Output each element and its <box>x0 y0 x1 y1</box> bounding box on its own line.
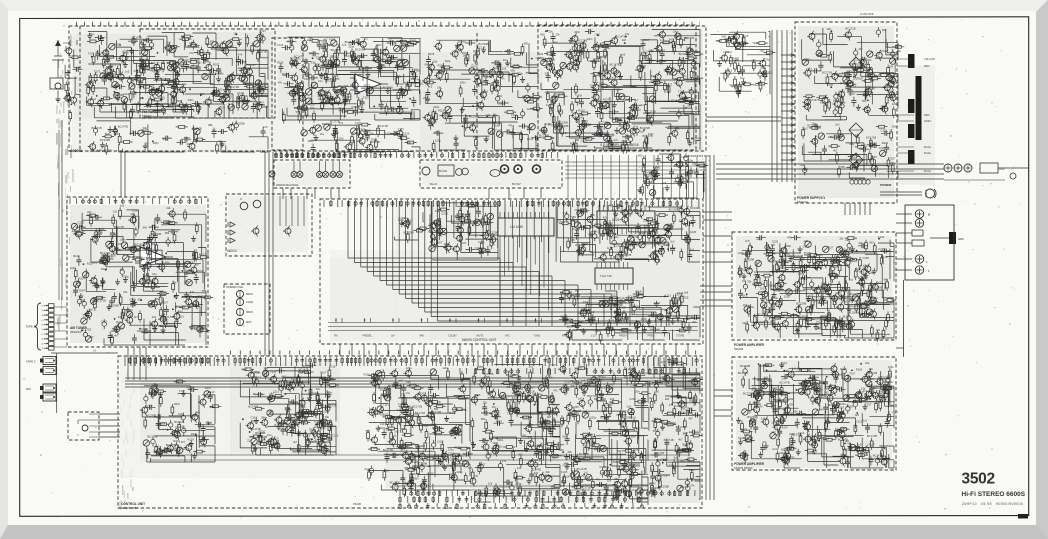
svg-text:C113: C113 <box>255 375 262 379</box>
svg-text:C113: C113 <box>725 50 732 54</box>
svg-text:R118: R118 <box>277 61 284 65</box>
svg-text:22k: 22k <box>555 33 560 37</box>
svg-text:R118: R118 <box>626 134 633 138</box>
svg-text:1n5: 1n5 <box>875 328 880 332</box>
svg-text:220p: 220p <box>590 416 596 420</box>
svg-text:560: 560 <box>356 37 361 41</box>
svg-text:R118: R118 <box>370 446 377 450</box>
svg-text:100n: 100n <box>599 82 605 86</box>
svg-text:6600/10: 6600/10 <box>797 200 808 204</box>
svg-text:220p: 220p <box>406 366 412 370</box>
svg-text:33k: 33k <box>855 269 860 273</box>
svg-text:220p: 220p <box>784 295 790 299</box>
svg-text:C113: C113 <box>178 412 185 416</box>
svg-text:BC171B: BC171B <box>846 27 856 31</box>
svg-text:68k: 68k <box>511 69 516 73</box>
svg-text:BC147B: BC147B <box>780 381 790 385</box>
svg-text:BC171B: BC171B <box>767 369 777 373</box>
svg-text:22k: 22k <box>865 361 870 365</box>
svg-text:C113: C113 <box>726 68 733 72</box>
svg-text:33k: 33k <box>567 450 572 454</box>
svg-text:33k: 33k <box>747 280 752 284</box>
svg-text:1n5: 1n5 <box>631 416 636 420</box>
svg-text:2n2: 2n2 <box>428 85 433 89</box>
svg-text:22k: 22k <box>684 36 689 40</box>
svg-text:BC171B: BC171B <box>253 392 263 396</box>
svg-text:C113: C113 <box>178 314 185 318</box>
svg-text:220p: 220p <box>253 370 259 374</box>
svg-text:T107: T107 <box>827 245 834 249</box>
svg-text:22k: 22k <box>545 470 550 474</box>
svg-text:560: 560 <box>498 94 503 98</box>
svg-text:T107: T107 <box>355 121 362 125</box>
svg-text:10u: 10u <box>209 98 214 102</box>
svg-text:R207: R207 <box>191 432 198 436</box>
svg-text:1k8: 1k8 <box>237 73 242 77</box>
svg-text:100n: 100n <box>460 81 466 85</box>
svg-text:1n5: 1n5 <box>816 319 821 323</box>
svg-text:33k: 33k <box>858 241 863 245</box>
svg-text:1n5: 1n5 <box>745 239 750 243</box>
svg-text:100n: 100n <box>617 449 623 453</box>
svg-text:1n5: 1n5 <box>125 70 130 74</box>
svg-text:C225: C225 <box>862 256 869 260</box>
svg-text:22k: 22k <box>557 219 562 223</box>
svg-text:2n2: 2n2 <box>781 376 786 380</box>
svg-text:22k: 22k <box>247 438 252 442</box>
svg-text:C113: C113 <box>848 92 855 96</box>
svg-text:BC171B: BC171B <box>399 43 409 47</box>
svg-text:1k8: 1k8 <box>855 413 860 417</box>
svg-text:22k: 22k <box>160 96 165 100</box>
svg-text:BC 547: BC 547 <box>512 182 521 186</box>
svg-text:68k: 68k <box>776 433 781 437</box>
svg-text:BC171B: BC171B <box>738 371 748 375</box>
svg-text:1n5: 1n5 <box>621 52 626 56</box>
svg-text:68k: 68k <box>505 49 510 53</box>
svg-text:T107: T107 <box>495 129 502 133</box>
svg-text:1k8: 1k8 <box>838 74 843 78</box>
svg-text:560: 560 <box>872 155 877 159</box>
svg-text:10u: 10u <box>606 46 611 50</box>
svg-text:BC171B: BC171B <box>199 253 209 257</box>
svg-text:1-10: 1-10 <box>591 335 596 338</box>
svg-text:R207: R207 <box>409 39 416 43</box>
svg-text:1n5: 1n5 <box>819 408 824 412</box>
svg-text:RED: RED <box>924 64 930 68</box>
svg-text:C225: C225 <box>178 90 185 94</box>
svg-text:6600/3A BALANCE: 6600/3A BALANCE <box>276 183 299 187</box>
svg-text:C225: C225 <box>614 244 621 248</box>
svg-text:33k: 33k <box>309 51 314 55</box>
svg-text:2n2: 2n2 <box>392 434 397 438</box>
svg-text:47k: 47k <box>690 484 695 488</box>
svg-text:Hi-Fi STEREO 6600S: Hi-Fi STEREO 6600S <box>962 491 1026 498</box>
svg-text:RED: RED <box>924 113 930 117</box>
svg-text:68k: 68k <box>208 123 213 127</box>
svg-text:C113: C113 <box>665 294 672 298</box>
svg-text:R207: R207 <box>329 37 336 41</box>
svg-text:10u: 10u <box>740 76 745 80</box>
svg-text:1n5: 1n5 <box>113 209 118 213</box>
svg-text:C225: C225 <box>572 405 579 409</box>
svg-text:560: 560 <box>178 309 183 313</box>
svg-text:C113: C113 <box>382 413 389 417</box>
svg-text:4k7: 4k7 <box>293 440 298 444</box>
svg-text:R118: R118 <box>397 39 404 43</box>
svg-text:1k8: 1k8 <box>509 398 514 402</box>
svg-text:C225: C225 <box>403 132 410 136</box>
svg-text:2n2: 2n2 <box>93 261 98 265</box>
svg-text:1n5: 1n5 <box>486 113 491 117</box>
svg-text:BC239B: BC239B <box>409 412 419 416</box>
svg-text:C225: C225 <box>78 221 85 225</box>
svg-text:100n: 100n <box>687 315 693 319</box>
svg-text:10u: 10u <box>379 387 384 391</box>
svg-text:C225: C225 <box>772 239 779 243</box>
svg-text:1n5: 1n5 <box>514 63 519 67</box>
svg-text:1n5: 1n5 <box>263 125 268 129</box>
svg-text:T107: T107 <box>655 417 662 421</box>
svg-text:TCA 730: TCA 730 <box>600 274 612 278</box>
svg-text:220p: 220p <box>515 482 521 486</box>
svg-text:R207: R207 <box>174 402 181 406</box>
svg-text:4k7: 4k7 <box>771 430 776 434</box>
svg-text:33k: 33k <box>548 29 553 33</box>
svg-text:TAPE 2: TAPE 2 <box>26 360 36 364</box>
svg-text:TAPE 1: TAPE 1 <box>26 325 36 329</box>
svg-text:33k: 33k <box>571 384 576 388</box>
svg-text:1n5: 1n5 <box>761 417 766 421</box>
svg-text:33k: 33k <box>545 71 550 75</box>
svg-text:BC147B: BC147B <box>118 124 128 128</box>
svg-text:68k: 68k <box>884 278 889 282</box>
svg-text:47k: 47k <box>205 59 210 63</box>
svg-text:560: 560 <box>552 456 557 460</box>
svg-text:22k: 22k <box>742 321 747 325</box>
svg-text:T107: T107 <box>179 389 186 393</box>
svg-text:100n: 100n <box>840 402 846 406</box>
svg-text:T107: T107 <box>363 96 370 100</box>
svg-text:38kHz: 38kHz <box>246 311 254 314</box>
svg-text:33k: 33k <box>140 96 145 100</box>
svg-text:A226: A226 <box>612 218 620 222</box>
svg-text:BLUE: BLUE <box>924 145 931 149</box>
svg-text:560: 560 <box>540 32 545 36</box>
svg-text:1n5: 1n5 <box>613 138 618 142</box>
svg-text:100n: 100n <box>191 127 197 131</box>
svg-text:33k: 33k <box>865 299 870 303</box>
svg-text:T107: T107 <box>507 412 514 416</box>
svg-text:2n2: 2n2 <box>690 248 695 252</box>
svg-text:BC147B: BC147B <box>531 468 541 472</box>
svg-text:TUNE: TUNE <box>534 335 541 338</box>
svg-text:2n2: 2n2 <box>561 454 566 458</box>
svg-text:T107: T107 <box>479 463 486 467</box>
svg-text:560: 560 <box>649 49 654 53</box>
svg-text:C225: C225 <box>690 230 697 234</box>
svg-text:BC239B: BC239B <box>622 415 632 419</box>
svg-text:4k7: 4k7 <box>417 417 422 421</box>
svg-text:47k: 47k <box>688 88 693 92</box>
svg-text:33k: 33k <box>583 300 588 304</box>
svg-text:T107: T107 <box>869 442 876 446</box>
svg-text:100n: 100n <box>98 227 104 231</box>
svg-text:BC171B: BC171B <box>378 124 388 128</box>
svg-text:220p: 220p <box>325 43 331 47</box>
svg-text:68k: 68k <box>744 433 749 437</box>
svg-text:560: 560 <box>813 378 818 382</box>
svg-text:100n: 100n <box>648 132 654 136</box>
svg-text:AFC: AFC <box>505 335 510 338</box>
svg-text:R207: R207 <box>857 77 864 81</box>
svg-text:BC147B: BC147B <box>390 481 400 485</box>
svg-text:220p: 220p <box>498 102 504 106</box>
svg-text:R118: R118 <box>740 427 747 431</box>
svg-text:C113: C113 <box>564 380 571 384</box>
svg-text:560: 560 <box>722 35 727 39</box>
svg-text:MW: MW <box>420 335 425 338</box>
svg-text:560: 560 <box>840 165 845 169</box>
svg-text:22k: 22k <box>594 132 599 136</box>
svg-text:1n5: 1n5 <box>601 444 606 448</box>
svg-text:V: V <box>240 197 242 201</box>
svg-text:2n2: 2n2 <box>310 439 315 443</box>
svg-text:2n2: 2n2 <box>529 364 534 368</box>
svg-text:R207: R207 <box>781 425 788 429</box>
svg-text:1n5: 1n5 <box>581 378 586 382</box>
svg-text:47k: 47k <box>522 434 527 438</box>
svg-text:BC171B: BC171B <box>148 435 158 439</box>
svg-text:R118: R118 <box>364 373 371 377</box>
svg-text:GRP: GRP <box>958 237 964 241</box>
svg-text:3502: 3502 <box>962 471 995 488</box>
svg-text:68k: 68k <box>787 244 792 248</box>
svg-text:T107: T107 <box>889 156 896 160</box>
svg-text:1n5: 1n5 <box>759 49 764 53</box>
svg-text:STORE: STORE <box>676 335 685 338</box>
svg-text:BC171B: BC171B <box>678 295 688 299</box>
svg-text:1k8: 1k8 <box>665 397 670 401</box>
svg-text:560: 560 <box>596 33 601 37</box>
svg-text:STEREO IND.: STEREO IND. <box>226 285 244 289</box>
svg-text:100n: 100n <box>892 124 898 128</box>
svg-text:1k8: 1k8 <box>804 239 809 243</box>
svg-text:560: 560 <box>413 67 418 71</box>
svg-text:68k: 68k <box>450 434 455 438</box>
svg-text:BLUE: BLUE <box>924 169 931 173</box>
svg-text:68k: 68k <box>481 417 486 421</box>
svg-text:47k: 47k <box>669 403 674 407</box>
svg-text:1n5: 1n5 <box>626 404 631 408</box>
svg-text:C113: C113 <box>332 434 339 438</box>
svg-text:68k: 68k <box>138 298 143 302</box>
svg-text:1k8: 1k8 <box>684 291 689 295</box>
svg-text:2n2: 2n2 <box>120 204 125 208</box>
svg-text:560: 560 <box>862 99 867 103</box>
svg-text:560: 560 <box>638 153 643 157</box>
svg-text:560: 560 <box>151 61 156 65</box>
svg-text:68k: 68k <box>570 142 575 146</box>
svg-text:47k: 47k <box>762 440 767 444</box>
svg-text:1n5: 1n5 <box>468 466 473 470</box>
svg-text:C225: C225 <box>206 421 213 425</box>
svg-text:BC239B: BC239B <box>796 301 806 305</box>
svg-text:33k: 33k <box>532 392 537 396</box>
svg-text:100n: 100n <box>738 436 744 440</box>
svg-text:R207: R207 <box>79 276 86 280</box>
svg-text:C113: C113 <box>478 240 485 244</box>
svg-text:4k7: 4k7 <box>688 417 693 421</box>
svg-text:560: 560 <box>105 132 110 136</box>
svg-text:47k: 47k <box>553 388 558 392</box>
svg-text:220p: 220p <box>781 257 787 261</box>
svg-text:100n: 100n <box>772 296 778 300</box>
svg-text:68k: 68k <box>309 36 314 40</box>
svg-text:C113: C113 <box>881 49 888 53</box>
svg-text:2n2: 2n2 <box>670 240 675 244</box>
svg-text:2n2: 2n2 <box>650 467 655 471</box>
svg-text:220p: 220p <box>448 448 454 452</box>
svg-text:Bou.N: Bou.N <box>430 182 437 186</box>
svg-text:1n5: 1n5 <box>577 397 582 401</box>
svg-text:FM: FM <box>334 335 337 338</box>
svg-text:C225: C225 <box>581 139 588 143</box>
svg-text:220p: 220p <box>669 463 675 467</box>
svg-text:2n2: 2n2 <box>743 293 748 297</box>
svg-text:C225: C225 <box>574 227 581 231</box>
svg-text:T107: T107 <box>415 450 422 454</box>
svg-text:BC171B: BC171B <box>850 292 860 296</box>
svg-text:BC147B: BC147B <box>810 98 820 102</box>
svg-text:47k: 47k <box>682 74 687 78</box>
svg-text:MPX: MPX <box>246 321 252 324</box>
svg-text:4k7: 4k7 <box>134 315 139 319</box>
svg-text:560: 560 <box>406 380 411 384</box>
svg-text:C113: C113 <box>645 61 652 65</box>
svg-text:T107: T107 <box>892 411 899 415</box>
svg-text:BC171B: BC171B <box>623 212 633 216</box>
svg-text:1k8: 1k8 <box>463 53 468 57</box>
svg-text:1k8: 1k8 <box>673 456 678 460</box>
svg-text:BC171B: BC171B <box>807 124 817 128</box>
svg-text:33k: 33k <box>815 327 820 331</box>
svg-text:R118: R118 <box>840 367 847 371</box>
svg-text:560: 560 <box>554 41 559 45</box>
svg-text:4k7: 4k7 <box>858 47 863 51</box>
svg-text:4k7: 4k7 <box>260 100 265 104</box>
svg-text:220p: 220p <box>414 460 420 464</box>
svg-text:R207: R207 <box>205 386 212 390</box>
svg-text:T107: T107 <box>759 287 766 291</box>
svg-text:100n: 100n <box>821 282 827 286</box>
svg-text:BC171B: BC171B <box>412 405 422 409</box>
svg-text:20HP10 05.95 90000/900000: 20HP10 05.95 90000/900000 <box>962 502 1023 506</box>
svg-text:100n: 100n <box>673 30 679 34</box>
svg-text:22k: 22k <box>743 303 748 307</box>
svg-text:L: L <box>926 260 928 264</box>
svg-text:2n2: 2n2 <box>314 425 319 429</box>
svg-text:10u: 10u <box>320 132 325 136</box>
svg-text:T107: T107 <box>865 402 872 406</box>
svg-text:OFF: OFF <box>999 167 1005 171</box>
svg-text:6600/8: 6600/8 <box>734 347 744 351</box>
svg-text:BC147B: BC147B <box>867 434 877 438</box>
svg-text:BC239B: BC239B <box>660 473 670 477</box>
svg-text:BC147B: BC147B <box>132 35 142 39</box>
svg-text:100n: 100n <box>590 83 596 87</box>
svg-text:33k: 33k <box>516 392 521 396</box>
svg-text:220p: 220p <box>641 317 647 321</box>
svg-text:1n5: 1n5 <box>640 129 645 133</box>
svg-text:T107: T107 <box>94 69 101 73</box>
svg-text:220p: 220p <box>456 470 462 474</box>
svg-text:220p: 220p <box>435 139 441 143</box>
svg-text:100n: 100n <box>586 37 592 41</box>
svg-text:2n2: 2n2 <box>189 51 194 55</box>
svg-text:220p: 220p <box>892 102 898 106</box>
svg-text:R207: R207 <box>249 63 256 67</box>
svg-text:C225: C225 <box>589 441 596 445</box>
svg-text:PRESEL: PRESEL <box>363 335 373 338</box>
svg-text:BC148: BC148 <box>439 169 447 173</box>
svg-text:R207: R207 <box>882 141 889 145</box>
svg-text:560: 560 <box>414 477 419 481</box>
svg-text:YELLOW: YELLOW <box>924 57 935 61</box>
svg-text:10u: 10u <box>503 58 508 62</box>
svg-text:C225: C225 <box>441 212 448 216</box>
svg-text:22k: 22k <box>861 386 866 390</box>
svg-text:BC171B: BC171B <box>92 126 102 130</box>
svg-text:BC171B: BC171B <box>93 296 103 300</box>
svg-text:6600/2: 6600/2 <box>70 148 83 153</box>
svg-text:BC239B: BC239B <box>539 134 549 138</box>
svg-text:560: 560 <box>143 226 148 230</box>
svg-text:68k: 68k <box>374 373 379 377</box>
svg-text:T107: T107 <box>849 372 856 376</box>
svg-text:19kHz: 19kHz <box>246 301 254 304</box>
svg-text:100n: 100n <box>888 365 894 369</box>
svg-text:T107: T107 <box>678 90 685 94</box>
svg-text:66kHz: 66kHz <box>246 293 254 296</box>
svg-text:100n: 100n <box>574 30 580 34</box>
svg-text:220p: 220p <box>789 432 795 436</box>
svg-text:BC171B: BC171B <box>691 478 701 482</box>
svg-text:C225: C225 <box>437 440 444 444</box>
svg-text:33k: 33k <box>143 126 148 130</box>
svg-text:47k: 47k <box>508 123 513 127</box>
svg-text:560: 560 <box>268 410 273 414</box>
svg-text:PRES+: PRES+ <box>619 335 628 338</box>
svg-text:47k: 47k <box>190 290 195 294</box>
svg-text:10u: 10u <box>318 79 323 83</box>
svg-text:560: 560 <box>571 215 576 219</box>
svg-text:2n2: 2n2 <box>584 470 589 474</box>
svg-text:2n2: 2n2 <box>877 281 882 285</box>
svg-text:560: 560 <box>310 106 315 110</box>
svg-text:2n2: 2n2 <box>649 482 654 486</box>
svg-text:C225: C225 <box>798 272 805 276</box>
svg-text:33k: 33k <box>433 60 438 64</box>
svg-text:6600/3: 6600/3 <box>227 249 237 253</box>
svg-text:1k8: 1k8 <box>889 65 894 69</box>
svg-text:220p: 220p <box>764 58 770 62</box>
svg-text:BC147B: BC147B <box>610 62 620 66</box>
svg-text:22k: 22k <box>488 482 493 486</box>
svg-text:R118: R118 <box>321 434 328 438</box>
svg-text:1k8: 1k8 <box>622 38 627 42</box>
svg-text:100n: 100n <box>156 218 162 222</box>
